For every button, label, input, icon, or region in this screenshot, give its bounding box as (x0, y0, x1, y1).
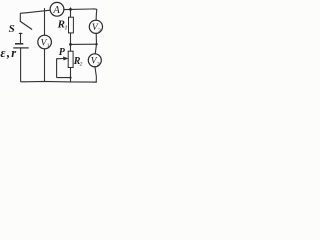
label P (59, 47, 66, 58)
voltmeter V1 (38, 35, 52, 49)
svg-text:S: S (9, 23, 15, 35)
voltmeter V2 (88, 54, 101, 67)
wire V1 branch lower (44, 49, 46, 82)
wire V3 bottom lead (95, 33, 97, 44)
switch S blade (20, 21, 31, 29)
wire top horizontal right of ammeter (64, 9, 97, 14)
svg-text:1: 1 (47, 43, 50, 49)
svg-text:2: 2 (80, 62, 83, 68)
label S (9, 23, 15, 35)
label V3 (92, 23, 101, 34)
label V2 (91, 57, 100, 68)
label R1 (57, 19, 68, 32)
wire wiper vertical (57, 59, 60, 78)
svg-text:2: 2 (97, 61, 100, 67)
voltmeter V3 (89, 20, 102, 33)
wire top horizontal left of ammeter (26, 10, 50, 13)
switch lower contact stub (19, 33, 22, 44)
wire bottom horizontal (24, 80, 97, 83)
svg-text:P: P (59, 47, 66, 58)
wire V2 bottom lead (93, 67, 96, 83)
wire R1 to R2 vertical (70, 33, 72, 51)
junction dot top at R1 (69, 8, 72, 11)
label R2 (73, 56, 83, 67)
label ε,r (0, 46, 17, 60)
rheostat R2 box (68, 51, 73, 67)
wire wiper horizontal (60, 77, 71, 79)
wire battery to bottom-left corner (21, 48, 24, 82)
junction blob wiper/R2 lead (69, 77, 71, 79)
svg-text:3: 3 (98, 28, 101, 34)
wire top-left vertical (20, 13, 26, 22)
wire middle horizontal node to node (71, 43, 97, 45)
junction dot right node (95, 43, 97, 45)
wire V2 top lead (95, 44, 96, 54)
wire R2 bottom lead (70, 68, 72, 82)
svg-text:1: 1 (64, 25, 67, 32)
wiper arrow P (57, 57, 69, 61)
wire V1 branch upper (44, 9, 46, 36)
svg-text:A: A (52, 5, 60, 16)
wire R1 top lead (70, 8, 72, 17)
resistor R1 box (69, 17, 74, 33)
junction dot middle node (69, 43, 72, 46)
svg-text:ε,r: ε,r (0, 46, 17, 60)
wire V3 top lead (95, 14, 97, 21)
label A (52, 5, 60, 16)
label V1 (41, 38, 50, 49)
battery ε,r plates (13, 44, 28, 48)
ammeter A (50, 2, 64, 16)
